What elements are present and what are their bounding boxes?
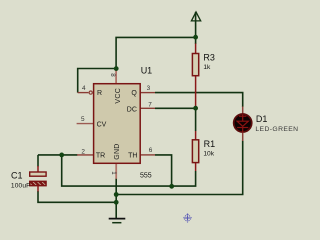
resistor R3	[192, 54, 198, 76]
svg-text:Q: Q	[131, 90, 137, 97]
wire R3 top link	[195, 37, 197, 44]
wire TR/TH net to R1 bottom	[62, 155, 196, 186]
pin stub R3 top lead	[195, 44, 197, 54]
wire reset branch from vcc node to pin4	[78, 69, 116, 93]
wire LED cathode to ground	[116, 141, 243, 195]
junction node R3/R1/DC	[193, 106, 198, 111]
capacitor C1 top plate	[30, 172, 46, 176]
svg-text:D1: D1	[256, 114, 268, 124]
IC U1 555 timer body	[94, 84, 141, 164]
svg-text:TR: TR	[96, 153, 105, 160]
pin stub DC pin7	[140, 107, 155, 109]
svg-text:100uF: 100uF	[11, 182, 30, 189]
wire C1 bottom to ground column	[38, 191, 116, 202]
svg-text:10k: 10k	[203, 151, 214, 158]
LED D1 symbol	[237, 114, 248, 132]
svg-text:LED-GREEN: LED-GREEN	[255, 126, 298, 133]
LED D1 body	[234, 114, 252, 132]
svg-text:C1: C1	[11, 171, 23, 181]
junction node gnd/LED line	[114, 192, 119, 197]
pin stub GND pin1	[115, 163, 117, 179]
wire R3 bottom node to R1 top	[195, 108, 197, 131]
svg-text:2: 2	[81, 149, 85, 156]
svg-text:R1: R1	[204, 139, 216, 149]
svg-text:555: 555	[140, 172, 152, 179]
pin stub R3 bottom lead	[195, 76, 197, 109]
pin stub C1 top	[37, 166, 39, 172]
svg-text:1: 1	[110, 171, 117, 175]
svg-text:GND: GND	[114, 144, 121, 160]
svg-text:7: 7	[148, 101, 152, 108]
pin stub R1 top lead	[195, 131, 197, 140]
capacitor C1 bottom plate (hatched)	[30, 181, 46, 185]
pin stub LED anode	[242, 107, 244, 114]
wire Q output net to LED anode	[155, 93, 243, 107]
wire ground column	[115, 179, 117, 219]
pin stub C1 bottom	[37, 186, 39, 192]
resistor R1	[192, 140, 198, 163]
svg-text:6: 6	[149, 147, 153, 154]
svg-text:1k: 1k	[203, 64, 211, 71]
ground	[109, 218, 126, 220]
svg-text:TH: TH	[128, 153, 137, 160]
pin stub TR pin2	[77, 154, 93, 156]
junction node vcc/reset	[114, 66, 119, 71]
svg-text:4: 4	[82, 85, 86, 92]
svg-text:R3: R3	[203, 53, 215, 63]
pin stub R pin4 with bubble	[78, 92, 89, 94]
svg-text:DC: DC	[127, 106, 137, 113]
svg-text:VCC: VCC	[115, 88, 122, 104]
svg-text:3: 3	[147, 85, 151, 92]
pin stub Q pin3	[140, 92, 155, 94]
power terminal	[191, 12, 200, 21]
wire DC pin7 to R3/R1 column	[155, 107, 196, 109]
wire C1 top link	[37, 155, 39, 167]
pin stub VCC pin8	[115, 69, 117, 84]
svg-text:5: 5	[81, 116, 85, 123]
svg-text:U1: U1	[141, 65, 153, 75]
wire TR pin2 to C1 top	[38, 154, 78, 156]
wire power terminal stem	[195, 12, 197, 37]
pin stub R1 bottom lead	[195, 163, 197, 171]
junction node at power terminal	[193, 35, 198, 40]
junction node TR/C1	[59, 153, 64, 158]
junction node gnd/C1 line	[114, 200, 119, 205]
cursor crosshair marker	[183, 214, 191, 222]
pin stub CV pin5	[77, 123, 94, 125]
junction node TH/lower net	[169, 184, 174, 189]
pin stub LED cathode	[242, 133, 244, 141]
pin stub TH pin6	[140, 154, 155, 156]
wire VCC top rail from U1 vcc column to power terminal	[116, 37, 196, 68]
svg-text:8: 8	[109, 73, 116, 77]
wire TH pin6 down to lower net	[155, 155, 172, 186]
svg-text:R: R	[97, 90, 102, 97]
svg-text:CV: CV	[97, 121, 107, 128]
